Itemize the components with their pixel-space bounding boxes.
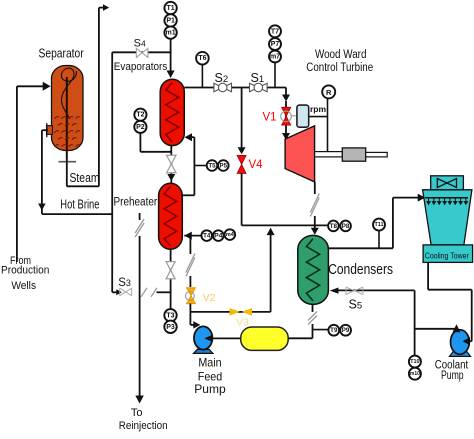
svg-text:S1: S1 — [251, 71, 265, 85]
svg-text:Cooling Tower: Cooling Tower — [425, 251, 469, 260]
svg-text:T9: T9 — [330, 327, 338, 334]
svg-text:T5: T5 — [208, 163, 216, 170]
svg-text:Feed: Feed — [198, 369, 223, 383]
svg-text:T3: T3 — [166, 312, 174, 319]
svg-text:Wells: Wells — [11, 280, 36, 292]
svg-text:T4: T4 — [203, 233, 211, 240]
svg-text:Production: Production — [1, 265, 49, 277]
svg-text:R: R — [326, 88, 332, 97]
svg-text:Hot Brine: Hot Brine — [60, 197, 99, 211]
svg-text:V3: V3 — [236, 316, 249, 328]
svg-text:Pump: Pump — [194, 382, 226, 396]
svg-text:P9: P9 — [342, 327, 350, 334]
svg-text:T8: T8 — [330, 223, 338, 230]
svg-text:P1: P1 — [166, 17, 175, 24]
svg-text:V2: V2 — [203, 292, 216, 304]
svg-text:rpm: rpm — [310, 104, 327, 114]
svg-text:P5: P5 — [220, 163, 228, 170]
svg-text:S2: S2 — [215, 71, 229, 85]
svg-text:m10: m10 — [410, 371, 420, 377]
svg-text:Main: Main — [198, 356, 221, 370]
svg-text:Separator: Separator — [39, 47, 84, 61]
svg-text:T6: T6 — [198, 55, 206, 62]
svg-text:T7: T7 — [271, 28, 279, 35]
svg-text:S3: S3 — [118, 277, 131, 289]
svg-text:T10: T10 — [410, 359, 419, 365]
svg-text:P2: P2 — [136, 124, 145, 131]
svg-text:To: To — [131, 407, 143, 419]
svg-text:Pump: Pump — [441, 370, 464, 382]
svg-text:P8: P8 — [342, 223, 350, 230]
svg-text:m4: m4 — [226, 232, 235, 238]
svg-text:Preheater: Preheater — [114, 196, 158, 208]
svg-text:Evaporators: Evaporators — [114, 61, 168, 73]
svg-text:Condensers: Condensers — [328, 262, 393, 278]
svg-text:Control Turbine: Control Turbine — [306, 62, 373, 74]
svg-text:m1: m1 — [166, 30, 176, 37]
svg-text:T11: T11 — [375, 222, 384, 228]
svg-text:V1: V1 — [262, 112, 276, 124]
svg-text:S4: S4 — [134, 38, 146, 50]
svg-text:m7: m7 — [270, 54, 280, 61]
svg-text:P7: P7 — [271, 41, 280, 48]
svg-text:Wood Ward: Wood Ward — [315, 49, 367, 61]
svg-text:S5: S5 — [349, 298, 363, 312]
svg-text:Reinjection: Reinjection — [119, 420, 168, 432]
svg-text:P4: P4 — [214, 233, 223, 240]
svg-text:T2: T2 — [136, 112, 144, 119]
svg-text:V4: V4 — [248, 159, 263, 171]
svg-text:T1: T1 — [167, 5, 175, 12]
svg-text:P3: P3 — [166, 324, 175, 331]
svg-text:Steam: Steam — [70, 171, 100, 185]
